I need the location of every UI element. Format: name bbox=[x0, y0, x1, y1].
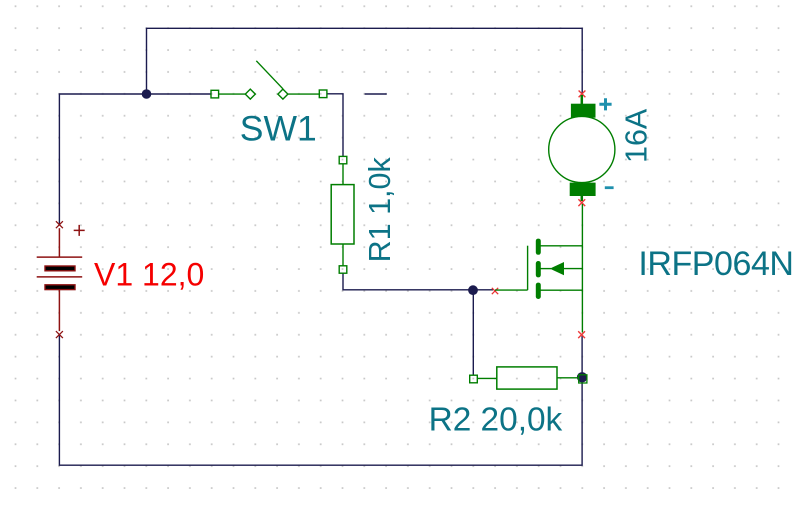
resistor R1 top terminal square bbox=[339, 156, 347, 163]
wire junction B down to R2 left terminal bbox=[472, 290, 474, 376]
wire switch right terminal to R1 top bbox=[327, 94, 343, 157]
motor M (16A) bbox=[549, 91, 615, 207]
resistor R1 body bbox=[331, 185, 354, 244]
motor bottom stub bbox=[581, 196, 584, 201]
motor bottom pin x-mark bbox=[578, 199, 585, 206]
battery V1 plus polarity mark bbox=[74, 225, 85, 236]
wire stub right of switch bbox=[365, 93, 387, 95]
motor top pin x-mark bbox=[579, 91, 586, 98]
svg-text:16A: 16A bbox=[620, 108, 654, 163]
battery V1 top lead bbox=[58, 228, 60, 257]
wire junction A up and across top to motor bbox=[147, 28, 583, 94]
wire junction A to switch left terminal bbox=[147, 93, 212, 95]
motor body circle bbox=[549, 116, 615, 182]
resistor R2 right lead bbox=[557, 377, 579, 379]
switch SW1 right terminal square bbox=[319, 90, 327, 98]
mosfet drain-source vertical lead bbox=[581, 204, 583, 333]
resistor R1 bbox=[331, 156, 354, 273]
motor minus polarity mark bbox=[605, 186, 614, 189]
mosfet channel bar (drain) bbox=[536, 239, 541, 255]
wire bottom loop battery to junction C bbox=[59, 335, 582, 465]
motor top stub bbox=[581, 95, 584, 105]
junction B dot bbox=[468, 285, 478, 295]
svg-text:R2 20,0k: R2 20,0k bbox=[429, 402, 563, 439]
motor top brush block bbox=[571, 104, 596, 118]
resistor R2 bbox=[470, 367, 587, 389]
wire junction B to mosfet gate pin bbox=[473, 289, 493, 291]
mosfet gate pin x-mark bbox=[492, 288, 498, 294]
switch SW1 bbox=[211, 61, 327, 99]
mosfet gate bar bbox=[527, 246, 529, 290]
mosfet channel bar (body) bbox=[536, 261, 541, 277]
mosfet body-diode arrow bbox=[550, 262, 564, 275]
svg-text:IRFP064N: IRFP064N bbox=[638, 245, 793, 283]
battery V1 top pin x-mark bbox=[56, 221, 63, 228]
wire R1 bottom to junction B bbox=[343, 274, 473, 290]
switch SW1 left lead bbox=[219, 93, 246, 95]
resistor R1 top lead bbox=[342, 164, 344, 185]
mosfet drain lead bbox=[541, 245, 583, 247]
transistor Q1 IRFP064N (power MOSFET) bbox=[492, 204, 585, 338]
mosfet channel bar (source) bbox=[536, 283, 541, 299]
motor plus polarity mark bbox=[599, 98, 611, 110]
battery V1 plate 2 (thin) bbox=[37, 276, 82, 278]
resistor R1 bottom terminal square bbox=[339, 266, 347, 273]
junction C dot bbox=[577, 372, 587, 382]
svg-text:V1 12,0: V1 12,0 bbox=[94, 256, 204, 292]
mosfet source pin x-mark bbox=[578, 331, 585, 338]
resistor R2 left terminal square bbox=[470, 375, 478, 383]
switch SW1 lever bbox=[256, 61, 283, 89]
switch SW1 right lead bbox=[288, 93, 319, 95]
mosfet source lead bbox=[541, 289, 583, 291]
battery V1 plate 1 (thin) bbox=[37, 256, 82, 258]
junction A dot bbox=[142, 89, 152, 99]
resistor R2 right terminal cross on junction C bbox=[579, 375, 587, 383]
mosfet bar-to-arrow lead bbox=[541, 268, 552, 270]
resistor R1 bottom lead bbox=[342, 244, 344, 266]
wire mosfet source to junction C bbox=[581, 336, 583, 377]
svg-text:SW1: SW1 bbox=[240, 109, 317, 149]
mosfet gate lead bbox=[495, 289, 528, 291]
resistor R2 body bbox=[497, 367, 557, 389]
switch SW1 left contact diamond bbox=[245, 89, 255, 99]
resistor R2 left lead bbox=[477, 377, 497, 379]
switch SW1 right contact diamond bbox=[278, 89, 288, 99]
battery V1 bar 1 (thick) bbox=[45, 266, 75, 271]
battery V1 bottom lead bbox=[58, 290, 60, 332]
mosfet body-diode lead bbox=[563, 268, 582, 270]
battery V1 bar 2 (thick) bbox=[45, 285, 75, 290]
svg-text:R1 1,0k: R1 1,0k bbox=[363, 157, 397, 263]
wire battery-top to junction A bbox=[59, 94, 146, 225]
battery V1 bottom pin x-mark bbox=[56, 331, 63, 338]
battery V1 bbox=[37, 221, 85, 338]
motor bottom brush block bbox=[570, 183, 596, 196]
switch SW1 left terminal square bbox=[211, 90, 219, 98]
